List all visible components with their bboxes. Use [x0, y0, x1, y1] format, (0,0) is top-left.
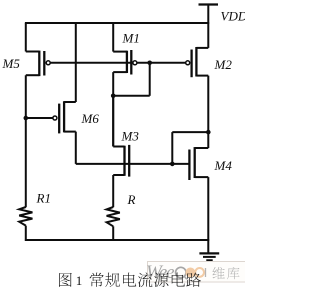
svg-text:M2: M2: [214, 57, 233, 72]
svg-text:M3: M3: [121, 128, 140, 143]
svg-text:R: R: [127, 192, 136, 207]
wire gate bus M3/M4: [76, 163, 190, 165]
wire M1 source to VDD rail: [112, 23, 114, 52]
wire gate bus M5/M1/M2: [50, 62, 186, 64]
bottom wire (ground net): [25, 239, 209, 241]
svg-text:VDD: VDD: [221, 9, 246, 24]
wire R1 to bottom: [25, 226, 27, 241]
ground: [199, 252, 219, 254]
watermark 维库: [213, 267, 225, 279]
wire M4 source to ground: [207, 177, 209, 253]
junction M1 gate bus: [147, 61, 152, 66]
caption 图1常规电流源电路: [59, 273, 72, 287]
wire M1 diode connection (gate to drain): [149, 63, 151, 96]
junction left rail / M6 gate: [24, 116, 29, 121]
svg-text:Wee: Wee: [146, 262, 174, 283]
wire M2 drain to M3/M4 gates: [171, 132, 173, 164]
resistor R1: [19, 207, 32, 226]
wire M6 gate to left rail: [26, 117, 53, 119]
transistor M3 (NMOS): [113, 146, 124, 148]
wire M3 source down to R: [112, 175, 114, 207]
wire M1 drain down to M3 drain: [112, 72, 114, 146]
svg-text:M4: M4: [214, 158, 233, 173]
wire M2 drain down to M4: [207, 76, 209, 148]
wire VDD bar to rail / M2 source: [207, 5, 209, 48]
svg-text:M1: M1: [122, 30, 140, 45]
svg-text:M5: M5: [2, 56, 21, 71]
watermark box: [148, 262, 247, 283]
wire left rail (M5 drain down to R1): [25, 75, 27, 207]
transistor M6 (PMOS): [64, 101, 76, 103]
junction gate bus 2: [170, 162, 175, 167]
wire M6 source down to gate bus 2: [75, 132, 77, 164]
junction M2 drain branch: [206, 130, 211, 135]
svg-text:R1: R1: [36, 190, 51, 205]
wire R to bottom wire: [112, 226, 114, 240]
top rail (VDD net): [25, 22, 209, 24]
resistor R: [107, 207, 120, 226]
junction M1 drain: [111, 94, 116, 99]
VDD supply bar: [199, 3, 219, 5]
transistor M2 (PMOS): [196, 47, 208, 49]
svg-text:1: 1: [76, 273, 83, 288]
wire M6 drain to VDD rail: [75, 23, 77, 102]
transistor M4 (NMOS): [195, 147, 209, 149]
wire left rail top (M5 source to VDD rail): [25, 23, 27, 52]
transistor M1 (PMOS): [113, 51, 127, 53]
svg-text:M6: M6: [81, 111, 100, 126]
transistor M5 (PMOS): [26, 51, 40, 53]
